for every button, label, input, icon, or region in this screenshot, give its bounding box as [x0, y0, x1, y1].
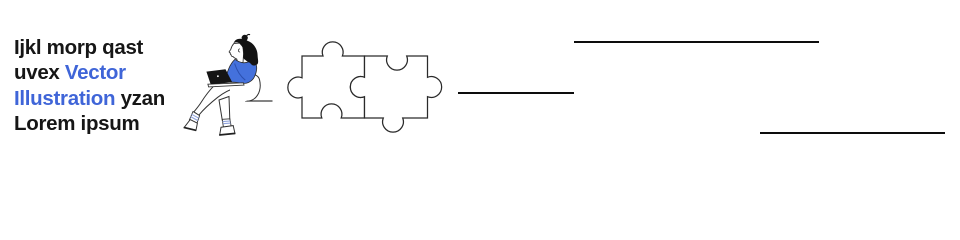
face and neck: [229, 43, 243, 63]
back sock: [222, 119, 231, 128]
front leg pant: [194, 85, 245, 115]
torso shirt: [226, 59, 257, 83]
bench line: [245, 100, 273, 102]
front shoe: [184, 120, 197, 131]
back leg pant: [219, 97, 230, 121]
headline text: [14, 35, 165, 136]
hair: [234, 39, 259, 66]
back shoe: [220, 126, 235, 135]
hair bun: [242, 35, 248, 41]
decorative line middle: [458, 92, 574, 94]
ear: [238, 49, 240, 52]
laptop base: [208, 83, 244, 87]
puzzle piece left: [288, 42, 365, 118]
front sock: [189, 112, 199, 124]
decorative line bottom: [760, 132, 945, 134]
laptop screen: [206, 69, 232, 84]
illustration: woman with laptop + puzzle: [0, 0, 960, 176]
hip / seat: [230, 74, 260, 101]
sleeve line: [235, 64, 246, 81]
puzzle piece right: [350, 56, 441, 132]
decorative line top: [574, 41, 819, 43]
